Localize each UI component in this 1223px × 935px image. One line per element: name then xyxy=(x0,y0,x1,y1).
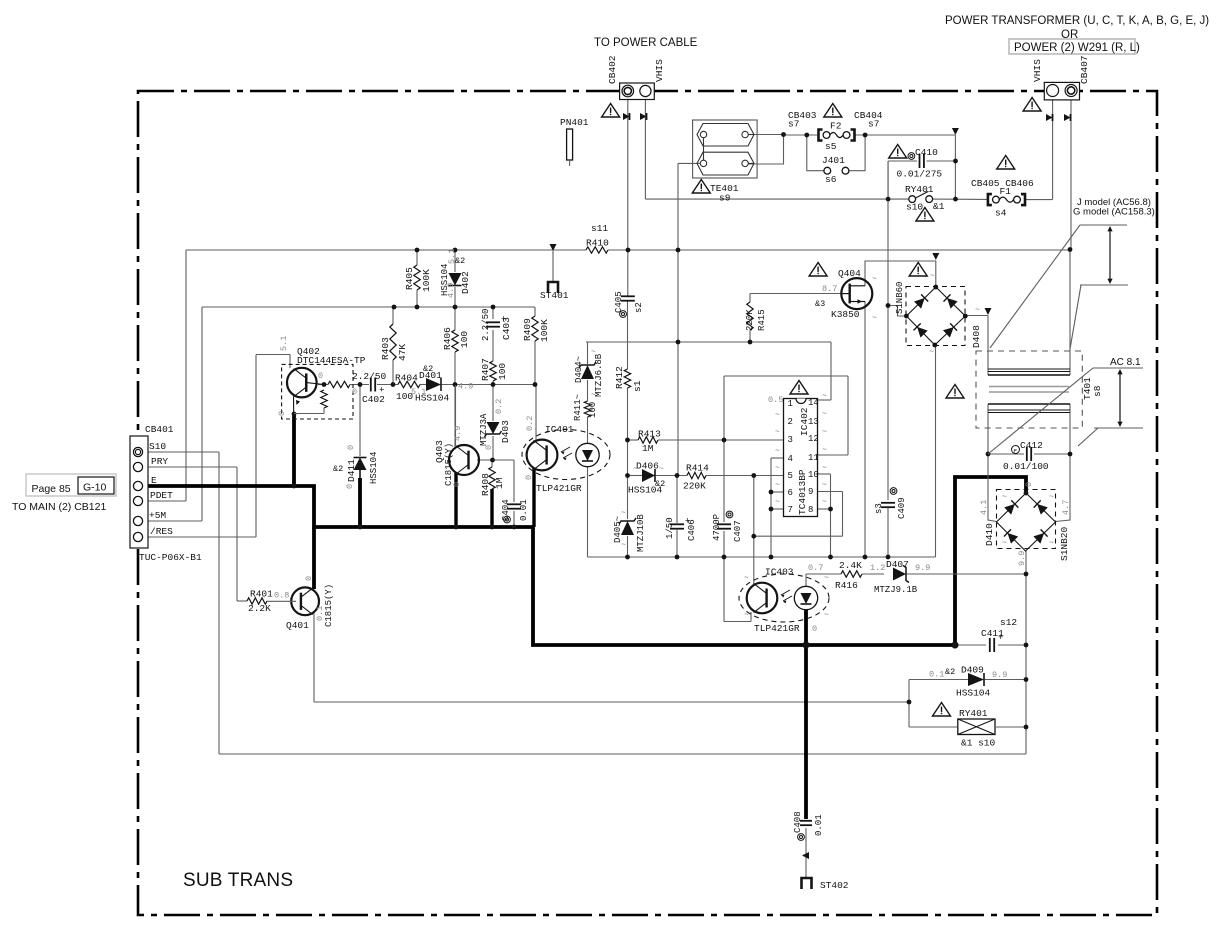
capacitor C404 0.01 xyxy=(507,503,521,505)
warning mark below CB407 xyxy=(1023,98,1041,112)
svg-text:s4: s4 xyxy=(995,208,1007,219)
svg-text:ST401: ST401 xyxy=(540,290,569,301)
svg-text:0: 0 xyxy=(345,484,355,489)
wire PDET to rail A xyxy=(142,500,186,502)
net arrow bridge to transformer xyxy=(985,308,992,315)
svg-text:R407: R407 xyxy=(480,358,491,381)
svg-text:Page 85: Page 85 xyxy=(32,483,71,495)
svg-text:~: ~ xyxy=(659,465,664,474)
capacitor C402 2.2/50 xyxy=(370,378,372,392)
svg-text:PDET: PDET xyxy=(150,490,173,501)
svg-text:2: 2 xyxy=(788,417,793,427)
svg-text:CB401: CB401 xyxy=(145,424,174,435)
diode D409 HSS104 xyxy=(968,673,984,686)
svg-text:6: 6 xyxy=(788,488,793,498)
svg-text:9.9: 9.9 xyxy=(1017,551,1027,566)
jumper J401 s6 xyxy=(824,167,831,174)
svg-text:0: 0 xyxy=(452,482,462,487)
svg-text:&3: &3 xyxy=(815,299,825,309)
svg-text:~: ~ xyxy=(822,498,827,507)
svg-text:~: ~ xyxy=(621,541,626,550)
wire chain x=587.5 D404-R411-LED-rail xyxy=(586,341,588,343)
svg-text:S1NB20: S1NB20 xyxy=(1059,526,1070,561)
wire C408 to ST402 xyxy=(805,828,807,877)
svg-text:Q401: Q401 xyxy=(286,620,309,631)
svg-text:220K: 220K xyxy=(745,309,755,331)
svg-text:R416: R416 xyxy=(835,580,858,591)
svg-text:C404: C404 xyxy=(501,499,511,521)
wire IC403 LED anode to R416/D407 row y=574 xyxy=(805,574,807,586)
svg-text:C412: C412 xyxy=(1020,440,1043,451)
svg-text:R401: R401 xyxy=(250,589,273,600)
resistor R413 1M xyxy=(638,437,658,443)
capacitor C410 0.01/275 xyxy=(908,153,915,160)
thick wire bus drop to C408 xyxy=(804,645,808,819)
svg-text:~: ~ xyxy=(775,481,780,490)
wire switch row y=199.1 from VHIS xyxy=(644,100,646,200)
connector CB401 TUC-P06X-B1 xyxy=(130,436,148,548)
svg-text:G model (AC158.3): G model (AC158.3) xyxy=(1073,207,1155,218)
svg-text:1M: 1M xyxy=(642,443,654,454)
svg-text:TC4013BP: TC4013BP xyxy=(797,469,808,515)
svg-text:D410: D410 xyxy=(984,523,995,546)
wire D411 branch xyxy=(359,385,361,457)
svg-text:~: ~ xyxy=(1049,493,1054,502)
svg-text:D407: D407 xyxy=(886,559,909,570)
svg-text:0.8: 0.8 xyxy=(274,591,289,601)
svg-text:R412: R412 xyxy=(614,366,625,389)
svg-text:~: ~ xyxy=(775,428,780,437)
strap ST402 xyxy=(802,878,812,889)
svg-text:C406: C406 xyxy=(687,519,697,541)
svg-text:1M: 1M xyxy=(494,477,505,489)
svg-text:~: ~ xyxy=(775,498,780,507)
transistor Q401 C1815(Y) xyxy=(291,587,319,615)
wire +5M to rail B xyxy=(142,520,202,522)
svg-text:R405: R405 xyxy=(404,267,415,290)
svg-text:~: ~ xyxy=(775,447,780,456)
bridge rectifier S1NB60 / D408 xyxy=(906,287,965,346)
svg-text:2.4K: 2.4K xyxy=(839,560,862,571)
svg-text:~: ~ xyxy=(824,574,829,583)
capacitor C409 s3 xyxy=(881,502,895,504)
svg-text:4.7: 4.7 xyxy=(1061,500,1071,515)
resistor R412 s1 xyxy=(624,369,630,388)
svg-text:D411: D411 xyxy=(346,459,357,482)
optocoupler IC403 TLP421GR xyxy=(739,574,829,622)
svg-text:D402: D402 xyxy=(460,271,471,294)
capacitor C406 1/50 xyxy=(670,523,684,525)
svg-text:2.2K: 2.2K xyxy=(248,603,271,614)
wire bridge right to transformer xyxy=(966,315,989,317)
svg-text:~: ~ xyxy=(621,509,626,518)
svg-text:~: ~ xyxy=(872,314,877,323)
wire R415 and Q404 gate xyxy=(749,294,751,303)
wire C404 stem xyxy=(513,511,515,527)
wire vertical chain x=455 (D402/R406) xyxy=(454,250,456,272)
svg-text:0.2: 0.2 xyxy=(494,399,504,414)
relay coil RY401 xyxy=(958,719,995,735)
svg-text:s11: s11 xyxy=(591,223,608,234)
wire Q403 base row xyxy=(477,459,514,461)
svg-text:5.1: 5.1 xyxy=(279,336,289,351)
page reference boxes xyxy=(26,474,116,496)
wire IC402 pin9 loop xyxy=(818,491,843,493)
svg-text:100: 100 xyxy=(497,363,508,380)
resistor R408 1M xyxy=(489,467,495,489)
svg-text:C402: C402 xyxy=(362,394,385,405)
svg-text:Q404: Q404 xyxy=(838,268,861,279)
capacitor C412 0.01/100 xyxy=(1026,447,1028,461)
zener D407 MTZJ9.1B xyxy=(893,568,906,581)
svg-text:~: ~ xyxy=(775,464,780,473)
svg-text:C410: C410 xyxy=(915,147,938,158)
svg-text:0: 0 xyxy=(352,387,357,397)
svg-text:4.9: 4.9 xyxy=(446,283,456,298)
svg-text:~: ~ xyxy=(744,611,749,620)
resistor R406 100 xyxy=(452,330,458,352)
svg-text:s1: s1 xyxy=(632,380,643,392)
svg-text:MTZJ3A: MTZJ3A xyxy=(479,413,489,446)
svg-text:VHIS: VHIS xyxy=(1032,59,1043,82)
svg-text:TO POWER CABLE: TO POWER CABLE xyxy=(594,37,698,49)
thick wire R408 to bus xyxy=(490,489,493,527)
thick wire Q403 emitter xyxy=(454,473,457,527)
svg-text:~: ~ xyxy=(930,272,935,281)
svg-text:4: 4 xyxy=(788,454,793,464)
wire D410 bridge links xyxy=(988,454,997,522)
svg-text:IC401: IC401 xyxy=(545,424,574,435)
svg-text:~: ~ xyxy=(591,391,596,400)
optocoupler IC401 TLP421GR xyxy=(522,430,610,480)
svg-text:HSS104: HSS104 xyxy=(415,393,450,404)
svg-text:R403: R403 xyxy=(380,337,391,360)
thick wire IC403 LED cathode to bus xyxy=(804,610,808,645)
svg-text:C403: C403 xyxy=(501,317,512,340)
polarity arrows below CB402 xyxy=(623,113,630,120)
IC401 opto arrows xyxy=(561,447,570,452)
connector CB407 xyxy=(1044,82,1079,100)
wire C410 row y=161 xyxy=(888,160,917,162)
svg-text:TO MAIN (2) CB121: TO MAIN (2) CB121 xyxy=(12,501,106,513)
svg-text:11: 11 xyxy=(808,453,819,463)
svg-text:~: ~ xyxy=(1002,539,1007,548)
wire x=1026 chain C411/D409/RY401 rows xyxy=(1025,574,1027,754)
svg-text:R408: R408 xyxy=(480,473,491,496)
svg-text:0.1: 0.1 xyxy=(929,670,944,680)
polarity arrows below CB407 xyxy=(1046,114,1053,121)
svg-text:3: 3 xyxy=(788,435,793,445)
IC IC402 TC4013BP xyxy=(784,399,818,517)
wire IC402 pins 10/8 tie x=830.5 xyxy=(818,473,831,475)
svg-text:IC403: IC403 xyxy=(765,567,794,578)
svg-text:1.2: 1.2 xyxy=(870,563,885,573)
svg-text:G-10: G-10 xyxy=(83,482,107,494)
svg-text:ST402: ST402 xyxy=(820,880,849,891)
zener D405 MTZJ10B xyxy=(621,521,634,535)
svg-text:~: ~ xyxy=(633,465,638,474)
svg-text:0: 0 xyxy=(277,411,287,416)
diode D401 HSS104 xyxy=(426,378,441,391)
FET Q404 K3850 xyxy=(841,278,872,309)
svg-text:s5: s5 xyxy=(825,141,837,152)
svg-text:~: ~ xyxy=(822,481,827,490)
svg-text:1/50: 1/50 xyxy=(665,517,675,539)
wire R405 branch xyxy=(416,250,418,265)
svg-text:D406: D406 xyxy=(636,461,659,472)
svg-text:+5M: +5M xyxy=(149,510,166,521)
svg-text:~: ~ xyxy=(822,428,827,437)
svg-text:s6: s6 xyxy=(825,174,837,185)
svg-text:&2: &2 xyxy=(945,667,955,677)
fuse F1 with CB405/CB406 xyxy=(988,194,992,205)
svg-text:&2: &2 xyxy=(455,256,465,266)
svg-text:0.5: 0.5 xyxy=(768,395,783,405)
terminal TE401 s9 xyxy=(693,120,758,178)
strap ST401 xyxy=(550,244,557,251)
warning mark below CB402 xyxy=(602,104,620,118)
svg-text:0.01/100: 0.01/100 xyxy=(1003,461,1049,472)
svg-text:AC 8.1: AC 8.1 xyxy=(1110,357,1141,368)
svg-text:100K: 100K xyxy=(421,269,432,292)
svg-text:~: ~ xyxy=(963,666,968,675)
svg-text:4700P: 4700P xyxy=(712,514,722,541)
svg-text:~: ~ xyxy=(872,275,877,284)
thick wire D411 cathode to bus xyxy=(358,478,362,527)
capacitor C407 4700P xyxy=(717,523,731,525)
wire C407 branch x=724 and pin11 loop xyxy=(723,440,725,522)
svg-text:J401: J401 xyxy=(822,155,845,166)
svg-text:C405: C405 xyxy=(614,291,624,313)
svg-text:C407: C407 xyxy=(733,520,743,542)
wire D409 row y=679.5 xyxy=(909,679,968,681)
svg-text:/RES: /RES xyxy=(150,526,173,537)
resistor R415 220K xyxy=(747,302,753,330)
resistor R414 220K xyxy=(687,472,706,478)
svg-text:R410: R410 xyxy=(586,238,609,249)
svg-text:IC402: IC402 xyxy=(799,407,810,436)
wire IC401 phototransistor collector xyxy=(535,385,537,442)
svg-text:s7: s7 xyxy=(788,119,799,130)
svg-text:s2: s2 xyxy=(634,302,644,313)
resistor R405 100K xyxy=(414,265,420,290)
svg-text:R414: R414 xyxy=(686,463,709,474)
wire CB407-R pin down to transformer primary xyxy=(1070,100,1072,250)
svg-text:DTC144ESA-TP: DTC144ESA-TP xyxy=(297,355,366,366)
svg-text:0: 0 xyxy=(304,576,314,581)
thick wire Q402 emitter drop xyxy=(292,414,296,486)
svg-text:C408: C408 xyxy=(793,811,803,833)
wire CB402-L pin down to C405 xyxy=(627,100,629,297)
wire /RES to Q402 collector xyxy=(142,536,256,538)
net arrow into bridge xyxy=(932,253,939,260)
net arrow marker at F2 output xyxy=(952,128,959,135)
diode D406 HSS104 xyxy=(642,469,655,482)
svg-text:D408: D408 xyxy=(971,325,982,348)
svg-text:R411~: R411~ xyxy=(573,394,583,421)
svg-text:5: 5 xyxy=(788,471,793,481)
svg-text:47K: 47K xyxy=(397,344,408,361)
svg-text:R404: R404 xyxy=(395,373,418,384)
svg-text:R415: R415 xyxy=(757,309,767,331)
svg-text:s3: s3 xyxy=(874,503,884,514)
svg-text:~: ~ xyxy=(744,574,749,583)
svg-text:10: 10 xyxy=(808,470,819,480)
svg-text:VHIS: VHIS xyxy=(654,59,665,82)
svg-text:14: 14 xyxy=(808,398,819,408)
wire TE401 right loop to F2 xyxy=(754,134,784,136)
svg-text:100: 100 xyxy=(588,402,598,418)
svg-text:HSS104: HSS104 xyxy=(956,688,991,699)
thick bus: E line from CB401 through circuit xyxy=(142,477,1026,645)
wire net AC line A (R410 rail y=250) xyxy=(186,249,586,251)
svg-text:~: ~ xyxy=(822,446,827,455)
svg-text:100: 100 xyxy=(459,331,470,348)
svg-text:P: P xyxy=(1014,448,1017,455)
svg-text:R413: R413 xyxy=(638,429,661,440)
wire R408 branch xyxy=(491,460,493,467)
svg-text:C1815(Y): C1815(Y) xyxy=(324,584,334,627)
svg-text:MTZJ9.1B: MTZJ9.1B xyxy=(874,585,918,595)
svg-text:~: ~ xyxy=(775,411,780,420)
svg-text:8.7: 8.7 xyxy=(822,284,837,294)
svg-text:S10: S10 xyxy=(149,441,166,452)
svg-text:R406: R406 xyxy=(442,327,453,350)
transistor Q403 C1815(Y) xyxy=(449,445,479,475)
svg-text:0: 0 xyxy=(318,371,323,381)
svg-text:F2: F2 xyxy=(830,121,842,132)
wire C403-R407-D403 chain x=493 xyxy=(492,307,494,319)
net marker above ST402 xyxy=(802,852,809,859)
svg-text:&1: &1 xyxy=(933,201,945,212)
svg-text:RY401: RY401 xyxy=(905,184,934,195)
svg-text:~: ~ xyxy=(822,464,827,473)
svg-text:CB407: CB407 xyxy=(1079,55,1090,84)
svg-text:POWER TRANSFORMER (U, C, T, K,: POWER TRANSFORMER (U, C, T, K, A, B, G, … xyxy=(945,15,1209,27)
svg-text:C1815(Y): C1815(Y) xyxy=(444,443,454,486)
svg-text:RY401: RY401 xyxy=(959,708,988,719)
svg-text:&2: &2 xyxy=(655,479,665,489)
svg-text:0: 0 xyxy=(346,445,356,450)
svg-text:+: + xyxy=(998,633,1003,643)
zener D404 MTZJ6.8B xyxy=(581,365,594,379)
svg-text:9.9: 9.9 xyxy=(915,563,930,573)
capacitor C408 0.01 xyxy=(800,820,812,822)
svg-text:4.1: 4.1 xyxy=(979,500,989,515)
capacitor C405 s2 xyxy=(621,295,635,297)
thick wire Q401 collector xyxy=(312,527,316,589)
wire Q404 drain to bridge top xyxy=(865,261,936,287)
svg-text:E: E xyxy=(151,475,157,486)
svg-text:0.7: 0.7 xyxy=(808,563,823,573)
wire bridge S1NB60 left link xyxy=(888,306,907,317)
schematic dash-dot border frame xyxy=(138,91,1157,915)
wire base row y=384.5 (Q402-C402-R404-D401 to R409) xyxy=(318,384,328,386)
resistor R416 2.4K xyxy=(841,571,862,577)
svg-text:8: 8 xyxy=(808,505,813,515)
thick wire IC401 emitter to bus corner xyxy=(532,468,535,527)
svg-text:0: 0 xyxy=(1024,482,1034,487)
svg-text:s7: s7 xyxy=(868,119,879,130)
svg-text:&2: &2 xyxy=(333,464,343,474)
fuse F2 with CB403/CB404 xyxy=(819,130,823,141)
Q402 internal base resistors xyxy=(328,381,350,387)
wire bridge bottom to rail corner xyxy=(935,345,937,557)
resistor R403 47K xyxy=(390,324,396,360)
svg-text:1: 1 xyxy=(788,399,793,409)
wire RY401 coil leads xyxy=(909,726,957,728)
svg-text:~: ~ xyxy=(929,348,934,357)
resistor R401 2.2K xyxy=(247,598,267,604)
svg-text:&1 s10: &1 s10 xyxy=(961,738,996,749)
thick junction dots on bus xyxy=(802,641,809,648)
svg-text:~: ~ xyxy=(1002,493,1007,502)
wire PRY to R401 xyxy=(142,466,237,468)
svg-text:MTZJ10B: MTZJ10B xyxy=(636,514,646,552)
svg-text:0.01/275: 0.01/275 xyxy=(897,169,943,180)
wire common rail y=557 xyxy=(588,556,936,558)
svg-text:100K: 100K xyxy=(539,319,550,342)
transformer T401 s8 xyxy=(976,351,1082,428)
wire D406/R414 row y=475.5 to IC402 pin5 xyxy=(628,475,643,477)
wire loop y=342 to IC402 pin14 xyxy=(586,341,831,343)
svg-text:C409: C409 xyxy=(897,497,907,519)
svg-text:s9: s9 xyxy=(719,193,731,204)
boxed label POWER (2) W291 (R, L) xyxy=(1009,39,1135,54)
wire IC403 collector x=753.8 xyxy=(753,476,755,585)
svg-text:7: 7 xyxy=(788,505,793,515)
svg-text:0.01: 0.01 xyxy=(814,814,824,836)
svg-text:D404~: D404~ xyxy=(574,356,584,383)
wire net B (y=307) xyxy=(202,306,535,308)
wire Q404 source to rail xyxy=(864,302,866,558)
svg-text:0: 0 xyxy=(812,624,817,634)
wire TE401 left down x=678 xyxy=(678,162,700,164)
svg-text:2.2/50: 2.2/50 xyxy=(481,309,491,341)
transistor Q402 DTC144ESA-TP xyxy=(282,364,353,419)
svg-text:s12: s12 xyxy=(1000,617,1017,628)
svg-text:~: ~ xyxy=(824,611,829,620)
svg-text:TUC-P06X-B1: TUC-P06X-B1 xyxy=(139,552,202,563)
svg-text:~: ~ xyxy=(975,306,980,315)
svg-text:0: 0 xyxy=(524,475,534,480)
svg-text:K3850: K3850 xyxy=(831,309,860,320)
svg-text:CB402: CB402 xyxy=(607,55,618,84)
wire R403 branch xyxy=(392,307,394,324)
svg-text:D401: D401 xyxy=(419,370,442,381)
svg-text:2.2/50: 2.2/50 xyxy=(352,371,387,382)
wire R413 row y=440 to IC402 pin3 xyxy=(628,439,639,441)
wire transformer secondary sides to C412 row xyxy=(987,404,989,454)
svg-text:0: 0 xyxy=(484,445,494,450)
svg-text:9: 9 xyxy=(808,487,813,497)
svg-text:POWER (2) W291 (R, L): POWER (2) W291 (R, L) xyxy=(1014,42,1140,54)
svg-text:S1NB60: S1NB60 xyxy=(895,282,905,314)
wire R409 branch x=535 xyxy=(534,307,536,316)
wire Q401 emitter to relay area (y=702) xyxy=(313,613,315,702)
svg-text:~: ~ xyxy=(822,392,827,401)
svg-text:s8: s8 xyxy=(1092,385,1103,397)
svg-text:~: ~ xyxy=(1049,539,1054,548)
svg-text:0.2: 0.2 xyxy=(525,416,535,431)
dimension bracket AC primary voltage xyxy=(1080,224,1127,226)
wire C410/C409 vertical x=888 xyxy=(887,161,889,199)
svg-text:F1: F1 xyxy=(1000,186,1012,197)
svg-text:~: ~ xyxy=(591,348,596,357)
wire S10 long loop to relay RY401 xyxy=(142,451,219,453)
resistor R404 100 xyxy=(398,381,420,387)
svg-text:TLP421GR: TLP421GR xyxy=(536,483,582,494)
